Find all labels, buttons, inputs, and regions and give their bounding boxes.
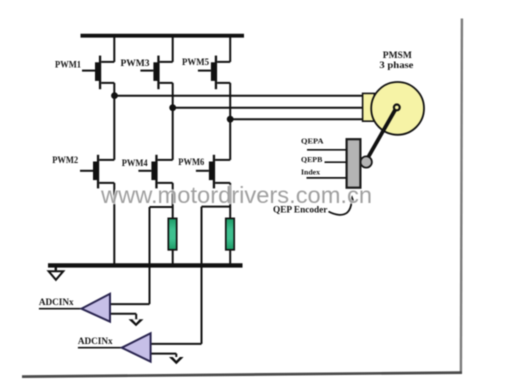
- svg-text:PWM6: PWM6: [178, 157, 204, 168]
- svg-text:QEPB: QEPB: [301, 155, 322, 164]
- svg-text:PWM1: PWM1: [55, 59, 81, 70]
- svg-text:QEPA: QEPA: [301, 137, 324, 146]
- svg-text:www.motordrivers.com.cn: www.motordrivers.com.cn: [100, 182, 372, 208]
- svg-text:Index: Index: [301, 168, 320, 177]
- svg-text:3 phase: 3 phase: [379, 60, 413, 70]
- svg-text:PWM5: PWM5: [182, 57, 209, 68]
- svg-text:PWM4: PWM4: [122, 158, 148, 169]
- svg-text:ADCINx: ADCINx: [39, 297, 74, 307]
- svg-text:ADCINx: ADCINx: [78, 336, 113, 346]
- svg-text:PWM3: PWM3: [121, 58, 150, 69]
- svg-text:PWM2: PWM2: [52, 155, 78, 166]
